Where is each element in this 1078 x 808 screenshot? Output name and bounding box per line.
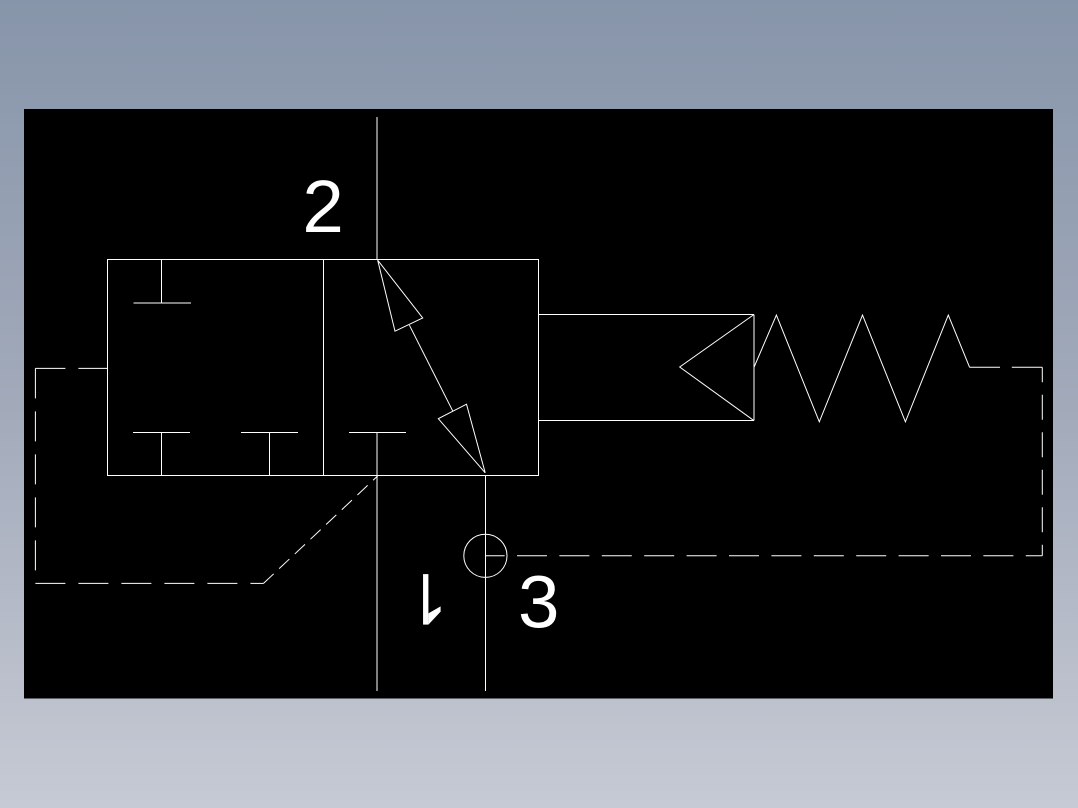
left pilot line horizontal at valve (dashed) xyxy=(35,367,107,369)
svg-text:2: 2 xyxy=(302,165,343,248)
pilot actuator box right edge xyxy=(753,315,755,421)
pilot line from port 3 circle (dashed) xyxy=(485,555,1042,557)
return spring xyxy=(754,315,970,422)
blocked port T (bottom left) bar xyxy=(133,432,190,434)
right pilot line vertical (dashed) xyxy=(1041,367,1043,555)
left pilot line vertical (dashed) xyxy=(34,368,36,583)
svg-text:3: 3 xyxy=(518,561,559,644)
left pilot line bottom horizontal (dashed) xyxy=(35,582,263,584)
port 1 line xyxy=(376,433,378,691)
left pilot diagonal to port 1 (dashed) xyxy=(264,476,378,584)
port 1 label flag xyxy=(428,606,440,624)
spring-side pilot link (dashed) xyxy=(970,366,1043,368)
flow arrow shaft xyxy=(409,325,453,411)
port 1 T bar (right square) xyxy=(349,432,406,434)
port 1 label (drawn as path, rotated 180) stem xyxy=(423,574,428,625)
valve body frame xyxy=(107,260,538,476)
drawing canvas (black viewport) xyxy=(24,109,1053,699)
port 3 junction circle xyxy=(464,534,507,577)
port 2 line xyxy=(376,117,378,260)
blocked port T (top left) bar xyxy=(133,302,191,304)
blocked port T (top left) stem xyxy=(161,260,163,304)
blocked port T (bottom middle) stem xyxy=(269,433,271,476)
pilot actuator box top xyxy=(538,314,754,316)
flow arrow head (bottom, open) xyxy=(438,404,485,473)
pilot actuator box bottom xyxy=(538,420,754,422)
valve position divider xyxy=(322,260,324,476)
flow arrow head (top, open) xyxy=(378,260,423,331)
pilot pressure triangle xyxy=(680,315,754,421)
port 3 line xyxy=(484,475,486,690)
blocked port T (bottom middle) bar xyxy=(241,432,298,434)
blocked port T (bottom left) stem xyxy=(161,433,163,476)
